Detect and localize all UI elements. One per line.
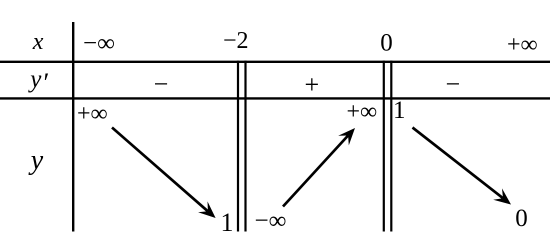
svg-text:0: 0 bbox=[380, 30, 393, 57]
svg-text:−2: −2 bbox=[223, 28, 249, 54]
svg-text:−∞: −∞ bbox=[255, 208, 287, 235]
svg-text:y: y bbox=[28, 145, 44, 176]
svg-text:′: ′ bbox=[44, 68, 50, 98]
svg-text:+∞: +∞ bbox=[347, 99, 378, 125]
svg-text:x: x bbox=[32, 29, 44, 55]
svg-text:+: + bbox=[304, 70, 319, 99]
svg-text:y: y bbox=[27, 66, 42, 93]
svg-text:−∞: −∞ bbox=[83, 30, 115, 57]
svg-text:1: 1 bbox=[221, 208, 234, 237]
svg-text:1: 1 bbox=[393, 97, 406, 124]
svg-text:0: 0 bbox=[515, 205, 528, 232]
svg-text:+∞: +∞ bbox=[507, 32, 538, 58]
svg-text:−: − bbox=[154, 70, 169, 99]
svg-text:−: − bbox=[445, 70, 460, 99]
svg-text:+∞: +∞ bbox=[77, 101, 108, 127]
